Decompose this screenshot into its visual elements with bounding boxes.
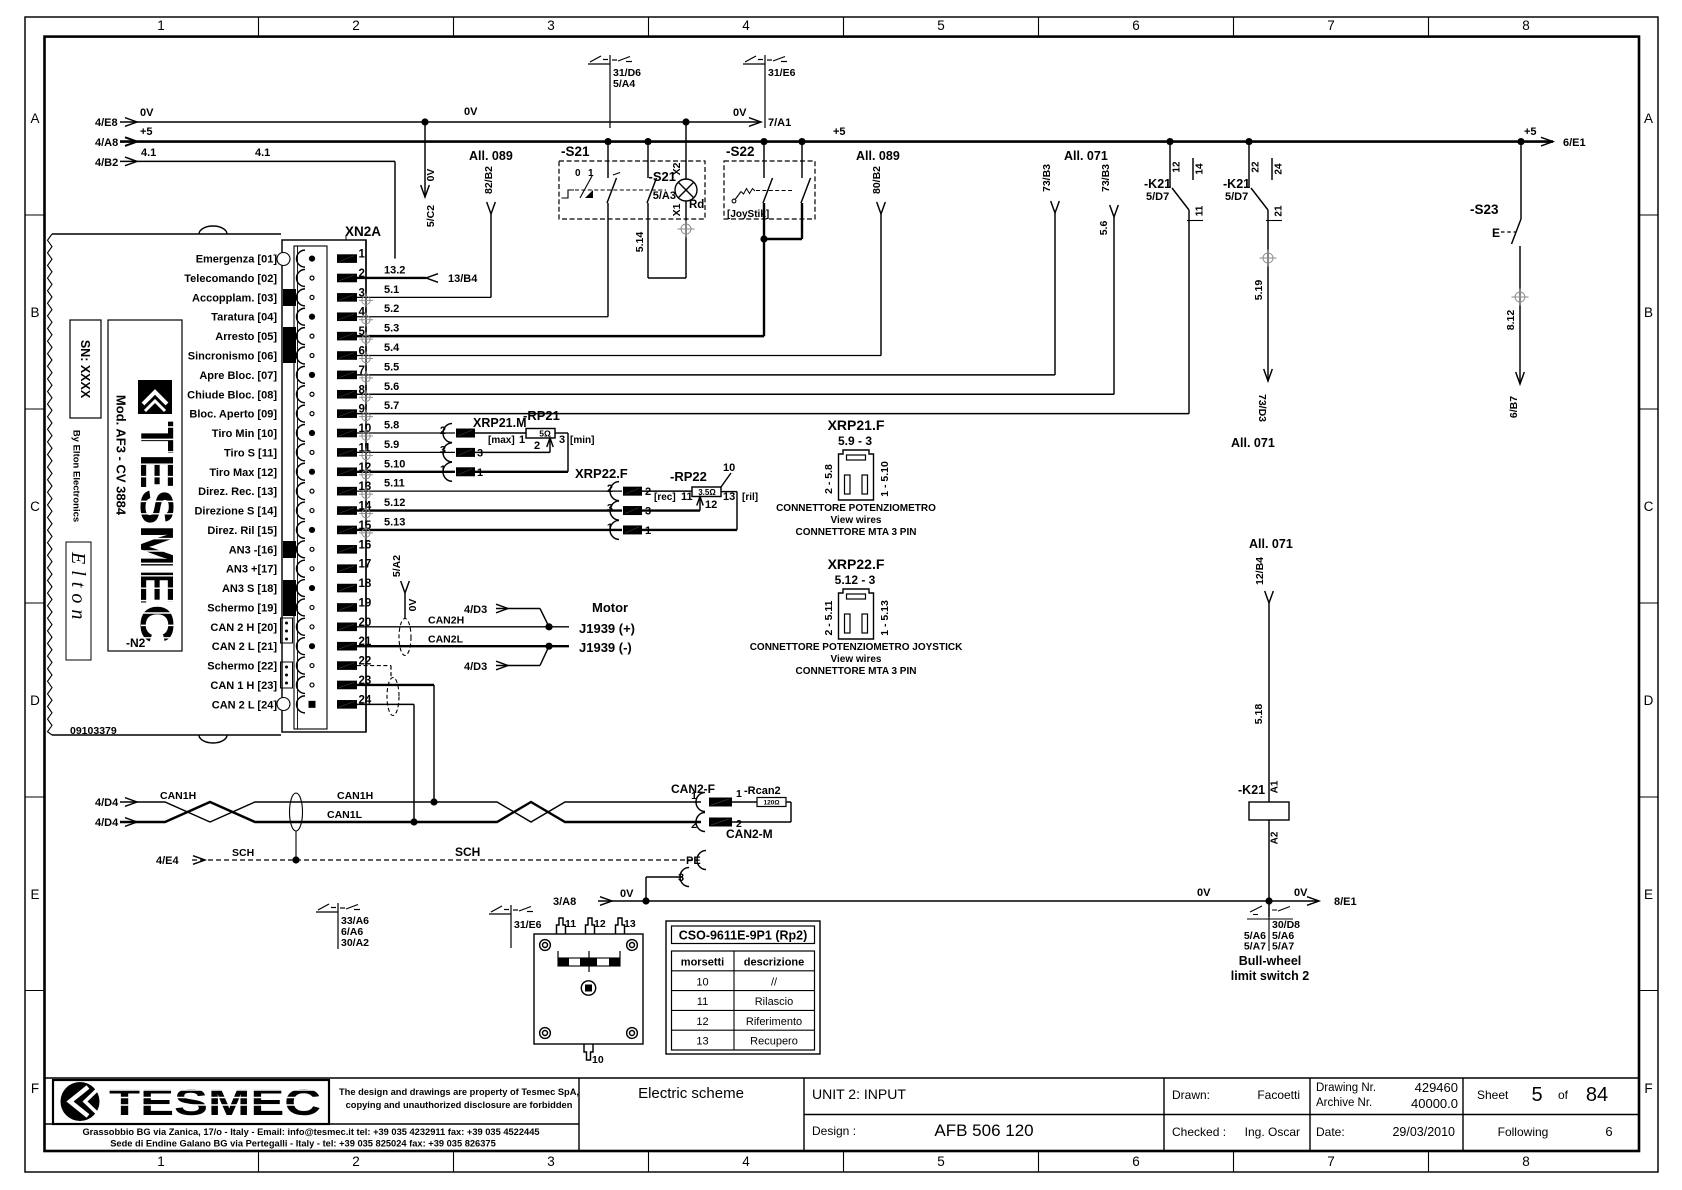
svg-text:Direz. Ril [15]: Direz. Ril [15] bbox=[207, 525, 277, 537]
svg-text:Riferimento: Riferimento bbox=[746, 1016, 802, 1028]
svg-text:of: of bbox=[1558, 1088, 1569, 1102]
svg-text:-K21: -K21 bbox=[1223, 177, 1250, 191]
svg-text:J1939 (+): J1939 (+) bbox=[579, 621, 635, 636]
svg-text:3: 3 bbox=[607, 503, 613, 515]
svg-text:Checked :: Checked : bbox=[1172, 1125, 1226, 1139]
svg-text:3/A8: 3/A8 bbox=[553, 896, 576, 908]
svg-text:AN3 +[17]: AN3 +[17] bbox=[226, 564, 277, 576]
svg-text:5.9: 5.9 bbox=[384, 439, 399, 451]
svg-text:13: 13 bbox=[624, 918, 636, 930]
svg-text:2: 2 bbox=[691, 819, 697, 831]
svg-text:CAN 1 H [23]: CAN 1 H [23] bbox=[210, 680, 277, 692]
svg-text:1: 1 bbox=[440, 464, 446, 476]
connector XN2A outline bbox=[282, 240, 366, 732]
svg-text:19: 19 bbox=[359, 597, 372, 609]
wire 5.9 pin11 bbox=[357, 451, 455, 453]
svg-text:7: 7 bbox=[1327, 1154, 1335, 1169]
svg-text:SCH: SCH bbox=[455, 845, 480, 859]
wire 5.2 from S21 bbox=[607, 203, 609, 317]
svg-text:Chiude Bloc. [08]: Chiude Bloc. [08] bbox=[187, 389, 277, 401]
svg-text:morsetti: morsetti bbox=[681, 957, 724, 969]
reference switch 31/E6 bbox=[764, 55, 766, 128]
svg-text:84: 84 bbox=[1586, 1084, 1608, 1106]
svg-text:120Ω: 120Ω bbox=[763, 800, 779, 807]
svg-text:[min]: [min] bbox=[570, 435, 594, 446]
svg-text:Taratura [04]: Taratura [04] bbox=[211, 312, 277, 324]
svg-text:CAN1H: CAN1H bbox=[160, 790, 196, 802]
svg-text:6: 6 bbox=[1605, 1124, 1612, 1139]
svg-text:5/D7: 5/D7 bbox=[1225, 191, 1248, 203]
svg-text:XRP22.F: XRP22.F bbox=[575, 466, 628, 481]
svg-text:11: 11 bbox=[681, 491, 693, 503]
svg-text:-S23: -S23 bbox=[1470, 202, 1499, 217]
svg-text:Drawing Nr.: Drawing Nr. bbox=[1316, 1082, 1376, 1094]
svg-text:CAN1L: CAN1L bbox=[327, 809, 363, 821]
svg-text:82/B2: 82/B2 bbox=[483, 166, 495, 194]
svg-text:5/A4: 5/A4 bbox=[613, 78, 635, 90]
svg-text:View wires: View wires bbox=[831, 515, 882, 526]
shield ellipse CAN2 bbox=[399, 619, 411, 656]
svg-text:Grassobbio BG via Zanica, 17: Grassobbio BG via Zanica, 17/o - Italy -… bbox=[82, 1127, 539, 1137]
logo TESMEC title bbox=[53, 1080, 329, 1124]
svg-text:12: 12 bbox=[696, 1016, 708, 1028]
svg-text:11: 11 bbox=[1195, 205, 1206, 216]
svg-text:4: 4 bbox=[742, 1154, 750, 1169]
svg-text:SN: XXXX: SN: XXXX bbox=[78, 340, 92, 399]
svg-text:[ril]: [ril] bbox=[742, 492, 758, 503]
svg-text:5.2: 5.2 bbox=[384, 303, 399, 315]
svg-text:5.18: 5.18 bbox=[1253, 704, 1265, 725]
svg-text:Date:: Date: bbox=[1316, 1125, 1345, 1139]
svg-text:Drawn:: Drawn: bbox=[1172, 1088, 1210, 1102]
svg-text:3: 3 bbox=[477, 448, 483, 460]
svg-text:1: 1 bbox=[157, 18, 165, 33]
svg-text:5.8: 5.8 bbox=[384, 420, 399, 432]
svg-text:XRP21.F: XRP21.F bbox=[828, 417, 885, 433]
svg-text:2: 2 bbox=[645, 486, 651, 498]
svg-text:4/D3: 4/D3 bbox=[464, 661, 487, 673]
shield ellipse CAN1 trunk bbox=[290, 793, 303, 831]
svg-text:All. 089: All. 089 bbox=[856, 149, 900, 163]
svg-text:1: 1 bbox=[477, 467, 483, 479]
svg-text:CSO-9611E-9P1 (Rp2): CSO-9611E-9P1 (Rp2) bbox=[679, 929, 808, 943]
svg-text:J1939 (-): J1939 (-) bbox=[579, 640, 632, 655]
svg-text:4.1: 4.1 bbox=[255, 147, 270, 159]
svg-text:5.10: 5.10 bbox=[384, 458, 405, 470]
reference switch 31/D6 5/A4 bbox=[609, 55, 611, 128]
svg-text:TESMEC: TESMEC bbox=[131, 421, 183, 643]
svg-text:8: 8 bbox=[1522, 18, 1530, 33]
svg-text:73/B3: 73/B3 bbox=[1100, 164, 1112, 192]
wire 0V bus bbox=[120, 121, 761, 123]
svg-text:descrizione: descrizione bbox=[744, 957, 805, 969]
svg-text:5Ω: 5Ω bbox=[539, 429, 551, 439]
svg-text:CONNETTORE POTENZIOMETRO JOYST: CONNETTORE POTENZIOMETRO JOYSTICK bbox=[750, 642, 963, 653]
svg-text:Electric scheme: Electric scheme bbox=[638, 1085, 744, 1102]
svg-text:6/E1: 6/E1 bbox=[1563, 137, 1586, 149]
svg-text:5: 5 bbox=[1531, 1084, 1542, 1106]
wire shield pin22 dashed bbox=[357, 665, 391, 667]
svg-text:1: 1 bbox=[157, 1154, 165, 1169]
svg-text:5.13: 5.13 bbox=[384, 516, 405, 528]
wire 5.13 pin15 bbox=[357, 529, 622, 531]
wire 5.19 to 73/D3 bbox=[1267, 210, 1269, 381]
svg-text:0V: 0V bbox=[733, 107, 747, 119]
svg-text:24: 24 bbox=[1274, 163, 1285, 175]
svg-text:Schermo [19]: Schermo [19] bbox=[207, 602, 277, 614]
svg-text:Rilascio: Rilascio bbox=[755, 996, 794, 1008]
switch S22 contact 2 bbox=[798, 138, 805, 145]
wire 5.7 from K21 pin 11 bbox=[1188, 210, 1190, 414]
CAN pair group marks bbox=[281, 618, 293, 643]
wire pin23 CAN1H drop bbox=[357, 684, 434, 686]
svg-text:2: 2 bbox=[352, 18, 360, 33]
svg-text:Elton: Elton bbox=[67, 551, 89, 625]
svg-text:Rd: Rd bbox=[689, 199, 704, 211]
device Elton logo box bbox=[108, 320, 182, 651]
svg-text:E: E bbox=[1644, 887, 1653, 902]
svg-text:5.14: 5.14 bbox=[634, 232, 646, 253]
wire 5.3 pin5 bbox=[357, 335, 764, 337]
svg-text:1: 1 bbox=[607, 522, 613, 534]
svg-text:All. 071: All. 071 bbox=[1231, 436, 1275, 450]
svg-text:0V: 0V bbox=[407, 599, 419, 612]
svg-text:2: 2 bbox=[607, 483, 613, 495]
svg-text:Sincronismo [06]: Sincronismo [06] bbox=[188, 351, 278, 363]
wire 5.14 lamp feed bbox=[647, 203, 649, 278]
svg-text:73/B3: 73/B3 bbox=[1041, 164, 1053, 192]
svg-text:E: E bbox=[30, 887, 39, 902]
svg-text:0V: 0V bbox=[1294, 887, 1308, 899]
svg-text:-K21: -K21 bbox=[1144, 177, 1171, 191]
svg-text:4/B2: 4/B2 bbox=[95, 157, 118, 169]
contact K21 22-24-21 bbox=[1245, 138, 1252, 145]
svg-text:13/B4: 13/B4 bbox=[448, 273, 478, 285]
svg-text:All. 089: All. 089 bbox=[469, 149, 513, 163]
reference switch 33/A6 6/A6 30/A2 bbox=[337, 903, 339, 949]
svg-text:C: C bbox=[1644, 499, 1654, 514]
svg-text:8.12: 8.12 bbox=[1505, 310, 1517, 331]
svg-text:3: 3 bbox=[559, 434, 565, 446]
title block bbox=[45, 1077, 1640, 1079]
svg-text:View wires: View wires bbox=[831, 654, 882, 665]
svg-text:7/A1: 7/A1 bbox=[768, 117, 791, 129]
potentiometer scale bar bbox=[558, 958, 620, 966]
svg-text:XN2A: XN2A bbox=[345, 224, 381, 239]
svg-text:+5: +5 bbox=[833, 126, 846, 138]
wire 5.6 pin8 bbox=[357, 393, 1114, 395]
svg-text:6: 6 bbox=[1132, 1154, 1140, 1169]
svg-text:X2: X2 bbox=[671, 162, 683, 175]
svg-text:Sheet: Sheet bbox=[1477, 1088, 1509, 1102]
svg-text:10: 10 bbox=[696, 976, 708, 988]
svg-text:limit switch 2: limit switch 2 bbox=[1231, 969, 1310, 983]
svg-text:-RP22: -RP22 bbox=[670, 469, 707, 484]
svg-text:CAN2H: CAN2H bbox=[428, 614, 464, 626]
wire 5.7 pin9 bbox=[357, 413, 1189, 415]
svg-text:0: 0 bbox=[575, 168, 581, 179]
wire S22 output junction bbox=[764, 238, 802, 240]
svg-text:5.6: 5.6 bbox=[384, 381, 399, 393]
switch S23 bbox=[1517, 138, 1524, 145]
svg-text:XRP21.M: XRP21.M bbox=[473, 416, 527, 430]
svg-text:5.11: 5.11 bbox=[384, 478, 405, 490]
svg-text:0V: 0V bbox=[1197, 887, 1211, 899]
svg-text:Recupero: Recupero bbox=[750, 1036, 798, 1048]
svg-text:Direz. Rec. [13]: Direz. Rec. [13] bbox=[198, 486, 277, 498]
svg-text:SCH: SCH bbox=[232, 847, 254, 859]
svg-text:Tiro Min [10]: Tiro Min [10] bbox=[212, 428, 278, 440]
svg-text:1 - 5.10: 1 - 5.10 bbox=[879, 461, 891, 497]
svg-text:22: 22 bbox=[1251, 161, 1262, 173]
svg-text:3: 3 bbox=[440, 444, 446, 456]
svg-text:The design and drawings are pr: The design and drawings are property of … bbox=[339, 1087, 579, 1097]
svg-text:429460: 429460 bbox=[1415, 1080, 1458, 1095]
svg-text:Tiro S [11]: Tiro S [11] bbox=[224, 447, 277, 459]
svg-text:CAN 2 L [21]: CAN 2 L [21] bbox=[212, 641, 278, 653]
svg-text:13.2: 13.2 bbox=[384, 264, 405, 276]
svg-text:D: D bbox=[1644, 693, 1654, 708]
svg-text:D: D bbox=[30, 693, 40, 708]
lamp S21 Rd bbox=[682, 118, 689, 125]
svg-text:CONNETTORE MTA 3 PIN: CONNETTORE MTA 3 PIN bbox=[796, 666, 917, 677]
svg-text:4/A8: 4/A8 bbox=[95, 137, 118, 149]
svg-text:5.19: 5.19 bbox=[1253, 280, 1265, 301]
svg-text:80/B2: 80/B2 bbox=[871, 166, 883, 194]
svg-text:AN3 -[16]: AN3 -[16] bbox=[229, 544, 278, 556]
svg-text:6: 6 bbox=[1132, 18, 1140, 33]
svg-text:C: C bbox=[30, 499, 40, 514]
svg-text:CAN1H: CAN1H bbox=[337, 790, 373, 802]
wire 8.12 to 6/B7 bbox=[1519, 246, 1521, 384]
svg-text:40000.0: 40000.0 bbox=[1411, 1096, 1458, 1111]
svg-text:Design :: Design : bbox=[812, 1124, 856, 1138]
svg-text:AN3 S [18]: AN3 S [18] bbox=[222, 583, 277, 595]
svg-text:-S22: -S22 bbox=[726, 144, 755, 159]
svg-text:CONNETTORE MTA 3 PIN: CONNETTORE MTA 3 PIN bbox=[796, 527, 917, 538]
svg-text:+5: +5 bbox=[1524, 126, 1537, 138]
svg-text:F: F bbox=[31, 1081, 39, 1096]
svg-text:13: 13 bbox=[696, 1036, 708, 1048]
svg-text:13: 13 bbox=[723, 491, 735, 503]
svg-text:18: 18 bbox=[359, 578, 372, 590]
switch S21 contact 2 bbox=[644, 138, 651, 145]
svg-text:10: 10 bbox=[592, 1054, 604, 1066]
svg-text:4/E4: 4/E4 bbox=[156, 855, 180, 867]
svg-text:5/A3: 5/A3 bbox=[653, 190, 676, 202]
svg-text:1: 1 bbox=[736, 788, 742, 800]
svg-text:31/E6: 31/E6 bbox=[768, 67, 796, 79]
svg-text:0V: 0V bbox=[464, 106, 478, 118]
svg-text:-RP21: -RP21 bbox=[523, 408, 560, 423]
svg-text:Sede di Endine Galano BG via P: Sede di Endine Galano BG via Pertegalli … bbox=[110, 1139, 496, 1149]
svg-text:3.5Ω: 3.5Ω bbox=[698, 488, 716, 497]
svg-text:8: 8 bbox=[1522, 1154, 1530, 1169]
svg-text:A: A bbox=[30, 111, 39, 126]
svg-text:7: 7 bbox=[1327, 18, 1335, 33]
svg-text:09103379: 09103379 bbox=[70, 725, 117, 737]
switch S22 contact 1 bbox=[760, 138, 767, 145]
svg-text:2: 2 bbox=[352, 1154, 360, 1169]
svg-text:8/E1: 8/E1 bbox=[1334, 896, 1357, 908]
svg-text:1: 1 bbox=[359, 249, 366, 261]
wire 5.1 pin3 bbox=[357, 296, 491, 298]
svg-text:-Rcan2: -Rcan2 bbox=[744, 785, 781, 797]
wire 5.12 pin14 bbox=[357, 509, 622, 511]
svg-text:73/D3: 73/D3 bbox=[1256, 394, 1268, 422]
svg-text:2: 2 bbox=[440, 425, 446, 437]
svg-text:AFB 506 120: AFB 506 120 bbox=[934, 1121, 1033, 1140]
svg-text:Telecomando [02]: Telecomando [02] bbox=[184, 273, 277, 285]
svg-text:A1: A1 bbox=[1270, 780, 1281, 793]
device SN label bbox=[70, 320, 101, 418]
potentiometer Rp2 drawing bbox=[534, 934, 643, 1044]
svg-text:3: 3 bbox=[547, 18, 555, 33]
svg-text:11: 11 bbox=[697, 996, 708, 1008]
wire CAN2H pin20 bbox=[357, 626, 569, 628]
wire 5.4 pin6 bbox=[357, 355, 881, 357]
wire 5.2 pin4 bbox=[357, 316, 608, 318]
svg-text:5.5: 5.5 bbox=[384, 361, 399, 373]
svg-text:Facoetti: Facoetti bbox=[1257, 1088, 1300, 1102]
svg-text:5.3: 5.3 bbox=[384, 323, 399, 335]
bull-wheel limit switch 2 bbox=[1268, 901, 1270, 917]
svg-text:[rec]: [rec] bbox=[654, 492, 676, 503]
svg-text:CAN 2 H [20]: CAN 2 H [20] bbox=[210, 622, 277, 634]
svg-text:5/C2: 5/C2 bbox=[425, 205, 437, 227]
svg-text:All. 071: All. 071 bbox=[1064, 149, 1108, 163]
svg-text:5: 5 bbox=[937, 18, 945, 33]
wire 5.10 pin12 bbox=[357, 471, 455, 473]
svg-text:-N2: -N2 bbox=[126, 636, 146, 650]
wire 5.5 pin7 bbox=[357, 374, 1055, 376]
wire 13.2 pin2 from 13/B4 bbox=[357, 277, 426, 279]
svg-text:B: B bbox=[1644, 305, 1653, 320]
svg-text:Emergenza [01]: Emergenza [01] bbox=[196, 254, 278, 266]
svg-text:4/E8: 4/E8 bbox=[95, 117, 118, 129]
svg-text:0V: 0V bbox=[620, 888, 634, 900]
switch S21 contact 1 bbox=[604, 138, 611, 145]
svg-text:17: 17 bbox=[359, 559, 372, 571]
svg-text:Archive Nr.: Archive Nr. bbox=[1316, 1097, 1372, 1109]
svg-text:Motor: Motor bbox=[592, 600, 628, 615]
svg-text:B: B bbox=[30, 305, 39, 320]
device terminal blocks marks bbox=[283, 289, 296, 306]
svg-text:4: 4 bbox=[742, 18, 750, 33]
svg-text:2 - 5.11: 2 - 5.11 bbox=[823, 600, 835, 635]
svg-text:Schermo [22]: Schermo [22] bbox=[207, 661, 277, 673]
svg-text:5/A7: 5/A7 bbox=[1244, 941, 1266, 953]
svg-text:Tiro Max [12]: Tiro Max [12] bbox=[209, 467, 277, 479]
svg-text:By Elton Electronics: By Elton Electronics bbox=[71, 430, 82, 522]
wire 5.11 pin13 bbox=[357, 490, 622, 492]
wire pin24 CAN1L drop bbox=[357, 703, 414, 705]
svg-text:XRP22.F: XRP22.F bbox=[828, 556, 885, 572]
svg-text:A2: A2 bbox=[1270, 831, 1281, 844]
svg-text:CAN2-M: CAN2-M bbox=[726, 827, 773, 841]
svg-text:5.4: 5.4 bbox=[384, 342, 400, 354]
svg-text:CAN 2 L [24]: CAN 2 L [24] bbox=[212, 699, 278, 711]
svg-text:16: 16 bbox=[359, 539, 372, 551]
svg-text:UNIT 2: INPUT: UNIT 2: INPUT bbox=[812, 1086, 906, 1102]
svg-text:CONNETTORE POTENZIOMETRO: CONNETTORE POTENZIOMETRO bbox=[776, 503, 936, 514]
svg-text:5/D7: 5/D7 bbox=[1146, 191, 1169, 203]
svg-text:-S21: -S21 bbox=[561, 144, 590, 159]
svg-text:Bloc. Aperto [09]: Bloc. Aperto [09] bbox=[189, 409, 277, 421]
wire +5 bus bbox=[120, 140, 1553, 143]
svg-text:31/E6: 31/E6 bbox=[514, 919, 542, 931]
contact K21 12-14-11 bbox=[1166, 138, 1173, 145]
svg-text:5: 5 bbox=[937, 1154, 945, 1169]
svg-text:Mod. AF3 - CV 3884: Mod. AF3 - CV 3884 bbox=[114, 395, 129, 516]
svg-text:11: 11 bbox=[565, 918, 576, 930]
wire 5.8 pin10 bbox=[357, 432, 455, 434]
svg-text:F: F bbox=[1644, 1081, 1652, 1096]
svg-text:5.12 - 3: 5.12 - 3 bbox=[835, 573, 876, 587]
svg-text:Accopplam. [03]: Accopplam. [03] bbox=[192, 292, 277, 304]
svg-text:4/D4: 4/D4 bbox=[95, 817, 119, 829]
svg-text:5.9 - 3: 5.9 - 3 bbox=[838, 434, 872, 448]
svg-text:X1: X1 bbox=[671, 203, 683, 216]
svg-text:5/A2: 5/A2 bbox=[391, 555, 403, 577]
shield ellipse CAN1 bbox=[387, 678, 399, 716]
potentiometer pin 10 bbox=[584, 1044, 593, 1060]
svg-text:TESMEC: TESMEC bbox=[109, 1082, 321, 1123]
svg-text:29/03/2010: 29/03/2010 bbox=[1392, 1125, 1455, 1139]
svg-text:21: 21 bbox=[1274, 205, 1285, 217]
svg-text:3: 3 bbox=[547, 1154, 555, 1169]
svg-text://: // bbox=[771, 976, 778, 988]
svg-text:6/B7: 6/B7 bbox=[1508, 396, 1520, 418]
svg-text:1: 1 bbox=[691, 790, 697, 802]
svg-text:Apre Bloc. [07]: Apre Bloc. [07] bbox=[199, 370, 277, 382]
svg-text:10: 10 bbox=[723, 462, 735, 474]
svg-text:Following: Following bbox=[1498, 1125, 1549, 1139]
wire 4.1 bbox=[120, 160, 395, 162]
svg-text:copying and unauthorized discl: copying and unauthorized disclosure are … bbox=[346, 1100, 573, 1110]
svg-text:5.6: 5.6 bbox=[1098, 221, 1110, 236]
svg-text:12: 12 bbox=[705, 499, 717, 511]
wire CAN2L pin21 bbox=[357, 645, 569, 647]
svg-text:Direzione S [14]: Direzione S [14] bbox=[194, 506, 277, 518]
svg-text:Arresto [05]: Arresto [05] bbox=[215, 331, 277, 343]
reference switch 31/E6 bottom bbox=[510, 905, 512, 948]
svg-text:5/A7: 5/A7 bbox=[1272, 941, 1294, 953]
svg-text:+5: +5 bbox=[140, 126, 153, 138]
svg-text:A: A bbox=[1644, 111, 1653, 126]
svg-text:1: 1 bbox=[519, 434, 525, 446]
svg-text:5.1: 5.1 bbox=[384, 284, 399, 296]
svg-text:4/D3: 4/D3 bbox=[464, 604, 487, 616]
svg-text:12/B4: 12/B4 bbox=[1254, 557, 1266, 585]
svg-text:0V: 0V bbox=[140, 107, 154, 119]
device Elton script bbox=[66, 542, 91, 660]
wire 0V drop 5/C2 bbox=[421, 118, 428, 125]
svg-text:2: 2 bbox=[534, 440, 540, 452]
svg-text:1 - 5.13: 1 - 5.13 bbox=[879, 600, 891, 636]
svg-text:4/D4: 4/D4 bbox=[95, 797, 119, 809]
svg-text:4.1: 4.1 bbox=[141, 147, 156, 159]
svg-text:-K21: -K21 bbox=[1238, 783, 1265, 797]
svg-text:[max]: [max] bbox=[488, 435, 515, 446]
svg-text:12: 12 bbox=[594, 918, 606, 930]
potentiometer shaft bbox=[581, 981, 595, 995]
crosshair lamp terminal bbox=[681, 224, 691, 234]
svg-text:All. 071: All. 071 bbox=[1249, 537, 1293, 551]
device N2 Mod. AF3-CV3884 body bbox=[52, 233, 281, 235]
svg-text:Ing. Oscar: Ing. Oscar bbox=[1245, 1125, 1300, 1139]
svg-text:E: E bbox=[1492, 226, 1500, 240]
